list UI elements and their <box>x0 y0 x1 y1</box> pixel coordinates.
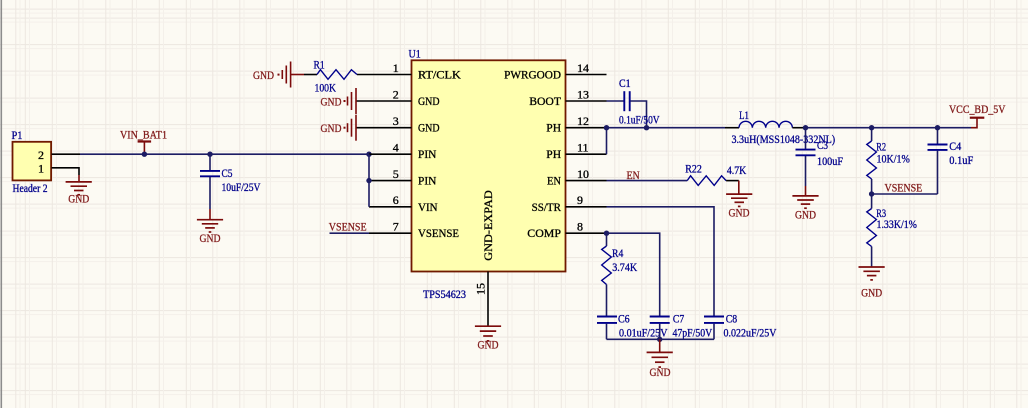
svg-text:PIN: PIN <box>418 174 437 188</box>
svg-text:PH: PH <box>546 147 561 161</box>
svg-text:GND: GND <box>650 365 671 379</box>
svg-text:C1: C1 <box>619 76 631 90</box>
pin 1 of P1 <box>52 168 80 175</box>
U1 right pins <box>566 75 607 234</box>
svg-text:GND: GND <box>68 191 89 205</box>
resistor R22 <box>685 162 746 186</box>
svg-text:C5: C5 <box>222 166 233 180</box>
svg-text:R1: R1 <box>314 58 325 72</box>
svg-text:PWRGOOD: PWRGOOD <box>504 68 561 82</box>
svg-text:VCC_BD_5V: VCC_BD_5V <box>949 102 1006 116</box>
power ground at U1 pin2 <box>321 88 357 114</box>
svg-text:C8: C8 <box>726 312 737 326</box>
svg-text:PIN: PIN <box>418 147 437 161</box>
svg-text:GND: GND <box>253 68 274 82</box>
svg-text:GND: GND <box>200 231 221 245</box>
svg-text:47pF/50V: 47pF/50V <box>673 326 713 340</box>
capacitor C6 <box>597 312 668 340</box>
svg-text:11: 11 <box>577 141 589 155</box>
power port VIN_BAT1 <box>120 128 167 155</box>
U1 right pin names <box>504 68 562 241</box>
svg-text:GND: GND <box>418 94 440 108</box>
capacitor C3 <box>796 128 844 186</box>
bottom bus wire <box>607 338 715 340</box>
svg-text:15: 15 <box>474 283 488 295</box>
svg-text:2: 2 <box>393 87 399 101</box>
svg-text:GND: GND <box>321 121 342 135</box>
wire COMP to C7 <box>607 233 660 316</box>
capacitor C8 <box>704 312 777 340</box>
junction C4 <box>935 125 940 130</box>
U1 right pin numbers <box>577 61 589 234</box>
ground below R3 <box>859 267 885 280</box>
svg-text:PH: PH <box>546 121 561 135</box>
svg-text:3.74K: 3.74K <box>612 260 637 274</box>
pin 2 of P1 <box>52 153 81 155</box>
svg-text:C7: C7 <box>673 312 684 326</box>
svg-text:0.1uF: 0.1uF <box>949 153 973 167</box>
svg-text:6: 6 <box>393 193 399 207</box>
capacitor C4 <box>928 128 974 194</box>
junction VSENSE <box>869 191 874 196</box>
wire pin11 up to PH row <box>606 128 608 155</box>
svg-text:VSENSE: VSENSE <box>329 219 367 233</box>
wire joining U1 pins 4,5,6 <box>368 154 370 207</box>
junction at VIN_BAT1 <box>142 152 147 157</box>
connector P1 <box>12 128 81 195</box>
svg-text:0.1uF/50V: 0.1uF/50V <box>619 113 660 127</box>
svg-text:8: 8 <box>577 220 583 234</box>
svg-text:9: 9 <box>577 193 583 207</box>
svg-text:Header 2: Header 2 <box>13 181 48 195</box>
junction pin8 <box>604 231 609 236</box>
svg-text:U1: U1 <box>409 46 421 60</box>
junction pin12 <box>604 125 609 130</box>
svg-text:GND: GND <box>729 206 750 220</box>
junction at C5 tap <box>207 152 212 157</box>
power port VCC_BD_5V <box>949 102 1006 128</box>
wire VSENSE <box>872 193 938 195</box>
svg-text:14: 14 <box>577 61 589 75</box>
capacitor C1 <box>607 76 660 128</box>
svg-text:1: 1 <box>393 61 399 75</box>
ground below C3 <box>792 186 818 208</box>
ground below C5 <box>197 209 223 232</box>
svg-text:L1: L1 <box>739 108 749 122</box>
wire PH row <box>607 127 726 129</box>
svg-text:EN: EN <box>627 168 640 182</box>
resistor R2 <box>867 128 910 194</box>
capacitor C5 <box>200 154 261 209</box>
svg-text:VIN_BAT1: VIN_BAT1 <box>120 128 167 142</box>
svg-text:3: 3 <box>393 114 399 128</box>
svg-text:1: 1 <box>38 161 44 175</box>
svg-text:R4: R4 <box>612 246 623 260</box>
svg-text:100uF: 100uF <box>817 154 843 168</box>
svg-text:1.33K/1%: 1.33K/1% <box>877 217 917 231</box>
svg-text:7: 7 <box>393 220 399 234</box>
sheet border edge <box>1 0 3 408</box>
svg-text:5: 5 <box>393 167 399 181</box>
wire L1 to output <box>806 127 972 129</box>
svg-text:13: 13 <box>577 87 589 101</box>
svg-text:GND: GND <box>321 94 342 108</box>
svg-text:12: 12 <box>577 114 589 128</box>
junction at U1 pin5 <box>366 178 371 183</box>
ground below bus <box>647 339 673 367</box>
svg-text:EN: EN <box>547 174 561 188</box>
wire EN net <box>607 180 688 182</box>
wire COMP down to R4 <box>606 233 608 246</box>
junction C1/PH <box>644 125 649 130</box>
svg-text:P1: P1 <box>12 128 23 142</box>
junction at U1 pin4 <box>366 152 371 157</box>
svg-text:10: 10 <box>577 167 589 181</box>
svg-text:2: 2 <box>38 148 44 162</box>
svg-text:C4: C4 <box>949 139 961 153</box>
svg-text:VIN: VIN <box>418 200 438 214</box>
svg-text:TPS54623: TPS54623 <box>423 287 466 301</box>
IC U1 body <box>409 46 566 300</box>
U1 left pin names <box>418 68 461 241</box>
svg-text:RT/CLK: RT/CLK <box>418 68 461 82</box>
ground below U1 pin15 <box>475 326 501 341</box>
resistor R1 <box>304 58 357 95</box>
U1 bottom pin 15 <box>487 272 489 326</box>
svg-text:VSENSE: VSENSE <box>885 181 923 195</box>
power ground at R1 (pin1 net) <box>253 62 304 88</box>
svg-text:10uF/25V: 10uF/25V <box>222 180 261 194</box>
svg-text:10K/1%: 10K/1% <box>877 151 910 165</box>
resistor R3 <box>867 194 917 267</box>
wire stub at U1 pin7 <box>330 232 370 234</box>
capacitor C7 <box>650 312 713 340</box>
svg-text:4: 4 <box>393 141 399 155</box>
ground below R22 <box>726 181 752 207</box>
junction R2 <box>869 125 874 130</box>
U1 left pin numbers <box>393 61 399 234</box>
svg-text:SS/TR: SS/TR <box>532 200 561 214</box>
power ground at U1 pin3 <box>321 115 357 141</box>
resistor R4 <box>602 246 638 316</box>
ground below P1 pin 1 <box>66 182 92 195</box>
svg-text:GND: GND <box>861 286 882 300</box>
wire VIN_BAT net (P1 to U1 pin4) <box>80 153 369 155</box>
junction C3 <box>803 125 808 130</box>
svg-text:BOOT: BOOT <box>529 94 561 108</box>
wire SS/TR to C8 <box>607 207 715 316</box>
svg-text:C6: C6 <box>618 312 630 326</box>
svg-text:0.022uF/25V: 0.022uF/25V <box>724 326 777 340</box>
svg-text:100K: 100K <box>315 81 337 95</box>
svg-text:GND: GND <box>418 121 440 135</box>
svg-text:GND: GND <box>795 207 816 221</box>
inductor L1 <box>725 108 835 146</box>
svg-text:4.7K: 4.7K <box>727 163 747 177</box>
svg-text:GND-EXPAD: GND-EXPAD <box>481 190 495 261</box>
svg-text:GND: GND <box>478 338 499 352</box>
svg-text:R22: R22 <box>685 162 702 176</box>
svg-text:VSENSE: VSENSE <box>418 226 459 240</box>
U1 left pins <box>356 75 412 234</box>
svg-text:COMP: COMP <box>527 226 561 240</box>
svg-text:C3: C3 <box>817 138 828 152</box>
junction bus/C7 <box>657 337 662 342</box>
